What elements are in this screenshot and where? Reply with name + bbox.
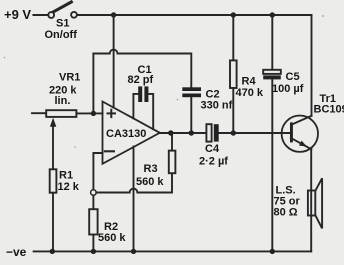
loudspeaker labels bbox=[274, 185, 301, 219]
node junction V- bottom bbox=[131, 249, 136, 254]
svg-text:C5: C5 bbox=[286, 71, 300, 83]
wire feedback node to R3 with hop over V- line bbox=[96, 173, 172, 192]
wire feedback top with hop over V+ line bbox=[93, 50, 191, 88]
wire output line bbox=[160, 132, 207, 134]
node junction C2 bottom bbox=[189, 130, 194, 135]
capacitor C2 labels bbox=[201, 89, 233, 112]
transistor base bar bbox=[290, 122, 293, 142]
capacitor C4 bbox=[206, 124, 218, 141]
loudspeaker LS cone bbox=[315, 178, 322, 228]
svg-text:330 nf: 330 nf bbox=[201, 100, 233, 112]
VR1 wiper arrow bbox=[50, 118, 56, 170]
wire -ve bottom rail bbox=[34, 250, 312, 252]
resistor R2 labels bbox=[98, 221, 126, 244]
wire C4 to base bbox=[219, 132, 290, 134]
transistor Q1 circle bbox=[282, 116, 318, 152]
wire R2 to -ve rail bbox=[92, 235, 94, 252]
wire op-amp V- pin to -ve rail bbox=[133, 147, 135, 252]
wire C1 right lead bbox=[148, 94, 153, 129]
speckle bbox=[322, 15, 324, 17]
resistor R3 labels bbox=[136, 163, 164, 188]
node open circle bbox=[91, 190, 97, 196]
wire C2 to output bbox=[190, 97, 192, 133]
potentiometer VR1 labels bbox=[49, 72, 80, 108]
wire VR1 input stub bbox=[32, 112, 46, 114]
wire - input bbox=[93, 153, 102, 190]
node junction output bbox=[168, 130, 173, 135]
svg-text:R3: R3 bbox=[144, 163, 158, 175]
op-amp + input symbol bbox=[108, 110, 116, 117]
wire +9V to switch bbox=[33, 14, 47, 16]
potentiometer VR1 body bbox=[46, 110, 76, 117]
node +9V label bbox=[4, 7, 31, 22]
loudspeaker LS body bbox=[308, 191, 315, 216]
switch S1 labels bbox=[45, 18, 78, 42]
svg-text:VR1: VR1 bbox=[59, 72, 80, 84]
wire VR1 to op-amp + input bbox=[76, 112, 102, 114]
svg-text:80 Ω: 80 Ω bbox=[274, 207, 298, 219]
svg-text:82 pf: 82 pf bbox=[128, 74, 154, 86]
op-amp U1 triangle bbox=[103, 102, 160, 164]
resistor R2 bbox=[89, 209, 97, 234]
speckle bbox=[74, 146, 76, 148]
svg-text:+9 V: +9 V bbox=[4, 7, 31, 22]
transistor emitter arrow bbox=[299, 141, 307, 147]
node junction top R4 bbox=[231, 12, 236, 17]
wire op-amp V+ supply pin bbox=[113, 15, 115, 108]
resistor R1 bbox=[50, 169, 57, 192]
node junction R4 bottom bbox=[231, 130, 236, 135]
wire top +9V rail bbox=[77, 14, 311, 16]
resistor R4 labels bbox=[236, 76, 264, 100]
node junction R2 bottom bbox=[91, 249, 96, 254]
capacitor C5 labels bbox=[272, 71, 304, 95]
wire right drop to collector bbox=[311, 15, 313, 116]
resistor R3 bbox=[169, 151, 176, 174]
resistor R1 labels bbox=[58, 170, 80, 194]
transistor collector bbox=[292, 116, 312, 125]
wire emitter to speaker bbox=[310, 149, 312, 251]
switch S1 bbox=[48, 2, 77, 18]
svg-text:R1: R1 bbox=[59, 170, 73, 182]
svg-text:CA3130: CA3130 bbox=[106, 128, 146, 140]
node junction + input bbox=[91, 111, 96, 116]
svg-text:R4: R4 bbox=[242, 76, 257, 88]
speckle bbox=[4, 57, 6, 59]
capacitor C1 labels bbox=[128, 64, 154, 86]
capacitor C4 labels bbox=[199, 143, 228, 168]
node junction R1 bottom bbox=[50, 249, 55, 254]
op-amp label CA3130 bbox=[106, 128, 146, 140]
svg-text:560 k: 560 k bbox=[136, 176, 164, 188]
svg-text:C4: C4 bbox=[205, 143, 220, 155]
op-amp - input symbol bbox=[105, 150, 114, 152]
svg-text:470 k: 470 k bbox=[236, 87, 264, 99]
wire R3 to output bbox=[171, 133, 173, 151]
capacitor C5 bbox=[263, 15, 281, 251]
capacitor C1 bbox=[138, 86, 148, 102]
node junction top C5 bbox=[270, 12, 275, 17]
resistor R4 bbox=[230, 15, 237, 133]
svg-text:100 µf: 100 µf bbox=[272, 83, 304, 95]
node junction C5 bottom bbox=[270, 249, 275, 254]
wire R1 to -ve rail bbox=[52, 193, 54, 252]
svg-text:BC109: BC109 bbox=[314, 104, 344, 116]
transistor emitter bbox=[291, 138, 312, 149]
svg-text:12 k: 12 k bbox=[58, 181, 80, 193]
transistor labels bbox=[314, 93, 344, 116]
wire C1 left lead bbox=[133, 94, 138, 118]
svg-text:lin.: lin. bbox=[55, 95, 71, 107]
svg-text:560 k: 560 k bbox=[98, 232, 126, 244]
node -ve label bbox=[6, 245, 27, 259]
svg-text:S1: S1 bbox=[56, 18, 69, 30]
svg-text:On/off: On/off bbox=[45, 29, 78, 41]
node junction top V+ bbox=[111, 12, 116, 17]
svg-text:−ve: −ve bbox=[6, 245, 27, 259]
wire node to R2 bbox=[92, 195, 94, 209]
capacitor C2 bbox=[182, 87, 201, 97]
speckle bbox=[177, 99, 179, 101]
wire feedback riser from + input bbox=[92, 54, 94, 114]
svg-text:2·2 µf: 2·2 µf bbox=[199, 156, 228, 168]
